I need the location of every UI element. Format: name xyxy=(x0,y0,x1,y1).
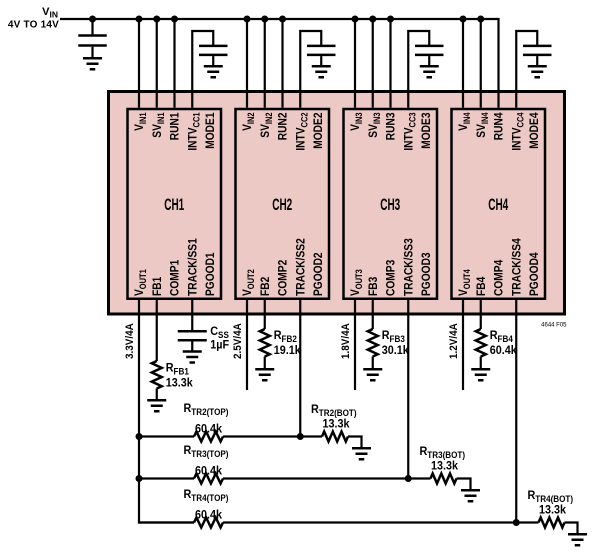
svg-text:1.8V/4A: 1.8V/4A xyxy=(341,323,353,359)
junction: VOUT1 / row TR2 xyxy=(136,433,143,440)
junction: CIN tap on VIN rail xyxy=(89,16,96,23)
wire: rail to RUN2 pin xyxy=(281,19,283,108)
svg-text:CH4: CH4 xyxy=(488,196,508,214)
svg-text:RUN1: RUN1 xyxy=(169,113,182,141)
channel block CH3 xyxy=(344,109,438,299)
svg-text:PGOOD3: PGOOD3 xyxy=(421,252,434,296)
ground: RFB1 xyxy=(147,400,166,411)
wire: CIN to ground xyxy=(91,47,93,58)
svg-text:3.3V/4A: 3.3V/4A xyxy=(125,323,137,359)
wire: RFB4 to ground xyxy=(480,357,482,369)
junction: VIN3 tap xyxy=(352,16,359,23)
svg-text:PGOOD4: PGOOD4 xyxy=(529,252,542,296)
wire: FB4 pin to RFB4 xyxy=(480,298,482,330)
wire: rail to VIN4 pin xyxy=(462,19,464,108)
svg-text:CH2: CH2 xyxy=(272,196,292,214)
wire: TRACK/SS4 down to row xyxy=(515,298,517,523)
resistor RTR2(TOP) 60.4k xyxy=(194,432,223,442)
wire: INTVCC4 pin to bypass cap C4 xyxy=(516,31,537,108)
svg-text:13.3k: 13.3k xyxy=(539,504,567,517)
resistor RFB4 60.4k xyxy=(476,329,486,357)
capacitor: INTVCC2 bypass xyxy=(307,46,336,55)
junction: VOUT1 / row TR3 xyxy=(136,475,143,482)
svg-text:13.3k: 13.3k xyxy=(166,377,194,390)
junction: SVIN4 tap xyxy=(477,16,484,23)
ground: INTVCC4 bypass cap xyxy=(528,66,547,77)
svg-text:60.4k: 60.4k xyxy=(195,465,223,478)
wire: FB2 pin to RFB2 xyxy=(264,298,266,330)
junction: TRACK/SS2 on row xyxy=(297,433,304,440)
junction: SVIN2 tap xyxy=(261,16,268,23)
junction: SVIN1 tap xyxy=(153,16,160,23)
wire: rail to SVIN2 pin xyxy=(264,19,266,108)
svg-text:30.1k: 30.1k xyxy=(382,345,410,358)
ground: RFB2 xyxy=(255,369,274,380)
svg-text:TRACK/SS4: TRACK/SS4 xyxy=(511,238,524,296)
svg-text:MODE2: MODE2 xyxy=(313,113,326,149)
svg-text:4V TO 14V: 4V TO 14V xyxy=(8,20,59,31)
wire: VOUT1 down to tracking row 3 xyxy=(139,298,194,523)
capacitor CIN xyxy=(78,36,107,46)
wire: RFB3 to ground xyxy=(372,357,374,369)
svg-text:FB1: FB1 xyxy=(151,277,164,296)
svg-text:2.5V/4A: 2.5V/4A xyxy=(233,323,245,359)
resistor RTR4(BOT) 13.3k xyxy=(539,518,565,528)
junction: VIN1 tap xyxy=(136,16,143,23)
wire: FB3 pin to RFB3 xyxy=(372,298,374,330)
wire: CSS to ground xyxy=(191,342,193,351)
svg-text:TRACK/SS3: TRACK/SS3 xyxy=(403,238,416,296)
wire: rail to RUN3 pin xyxy=(389,19,391,108)
ground: INTVCC3 bypass cap xyxy=(420,66,439,77)
wire: bypass cap C1 to ground xyxy=(212,56,214,65)
wire: rail to SVIN1 pin xyxy=(156,19,158,108)
wire: rail to SVIN3 pin xyxy=(372,19,374,108)
ground: RTR4(BOT) xyxy=(568,534,587,545)
svg-text:13.3k: 13.3k xyxy=(431,460,459,473)
junction: TRACK/SS3 on row xyxy=(405,475,412,482)
wire: rail to VIN2 pin xyxy=(246,19,248,108)
svg-text:13.3k: 13.3k xyxy=(322,418,350,431)
node VIN: input rail xyxy=(60,19,499,108)
svg-text:PGOOD2: PGOOD2 xyxy=(313,252,326,296)
wire: tracking row TR4 horizontal xyxy=(139,523,578,534)
resistor RTR3(BOT) 13.3k xyxy=(431,474,457,484)
resistor RFB2 19.1k xyxy=(260,329,270,357)
capacitor CSS 1uF xyxy=(178,331,207,340)
IC outer body LTC4644 xyxy=(109,92,565,315)
svg-text:4644 F05: 4644 F05 xyxy=(541,323,567,329)
channel block CH2 xyxy=(236,109,330,299)
svg-text:19.1k: 19.1k xyxy=(274,345,302,358)
wire: INTVCC3 pin to bypass cap C3 xyxy=(408,31,429,108)
channel block CH1 xyxy=(128,109,222,299)
junction: RUN2 tap xyxy=(279,16,286,23)
svg-text:TRACK/SS1: TRACK/SS1 xyxy=(187,238,200,296)
svg-text:FB4: FB4 xyxy=(475,276,488,296)
wire: rail to VIN1 pin xyxy=(138,19,140,108)
wire: rail to SVIN4 pin xyxy=(480,19,482,108)
svg-text:COMP2: COMP2 xyxy=(277,260,290,296)
capacitor: INTVCC4 bypass xyxy=(523,46,552,55)
ground: CSS xyxy=(183,352,202,363)
wire: tracking row TR3 horizontal xyxy=(139,479,471,490)
wire: INTVCC1 pin to bypass cap C1 xyxy=(192,31,213,108)
wire: bypass cap C3 to ground xyxy=(428,56,430,65)
svg-text:RUN3: RUN3 xyxy=(385,113,398,141)
wire: bypass cap C4 to ground xyxy=(536,56,538,65)
svg-text:RUN4: RUN4 xyxy=(493,112,506,140)
svg-text:COMP4: COMP4 xyxy=(493,259,506,296)
resistor RTR3(TOP) 60.4k xyxy=(194,474,223,484)
wire: TRACK/SS1 to CSS xyxy=(191,298,193,331)
wire: rail to VIN3 pin xyxy=(354,19,356,108)
svg-text:RUN2: RUN2 xyxy=(277,113,290,141)
svg-text:1.2V/4A: 1.2V/4A xyxy=(449,323,461,359)
ground: RTR3(BOT) xyxy=(461,490,480,501)
wire: FB1 pin to RFB1 xyxy=(156,298,158,362)
wire: VOUT4 output stub xyxy=(462,298,464,391)
ground: RTR2(BOT) xyxy=(352,448,371,459)
wire: TRACK/SS3 down to row xyxy=(407,298,409,479)
svg-text:FB2: FB2 xyxy=(259,277,272,296)
wire: INTVCC2 pin to bypass cap C2 xyxy=(300,31,321,108)
channel block CH4 xyxy=(452,109,546,299)
junction: VIN4 tap xyxy=(460,16,467,23)
svg-text:60.4k: 60.4k xyxy=(490,345,518,358)
resistor RFB3 30.1k xyxy=(368,329,378,357)
svg-text:COMP1: COMP1 xyxy=(169,260,182,296)
svg-text:60.4k: 60.4k xyxy=(195,509,223,522)
svg-text:FB3: FB3 xyxy=(367,277,380,296)
junction: RUN1 tap xyxy=(171,16,178,23)
svg-text:MODE3: MODE3 xyxy=(421,113,434,149)
wire: RFB2 to ground xyxy=(264,357,266,369)
svg-text:TRACK/SS2: TRACK/SS2 xyxy=(295,238,308,296)
junction: TRACK/SS4 on row xyxy=(513,519,520,526)
resistor RFB1 13.3k xyxy=(152,361,162,389)
wire: tracking row TR2 horizontal xyxy=(139,437,362,448)
svg-text:MODE1: MODE1 xyxy=(205,113,218,149)
svg-text:60.4k: 60.4k xyxy=(195,423,223,436)
capacitor: INTVCC3 bypass xyxy=(415,46,444,55)
svg-text:CH1: CH1 xyxy=(164,196,184,214)
wire: RFB1 to ground xyxy=(156,389,158,400)
svg-text:PGOOD1: PGOOD1 xyxy=(205,252,218,296)
ground: RFB3 xyxy=(363,369,382,380)
ground: INTVCC1 bypass cap xyxy=(204,66,223,77)
ground: RFB4 xyxy=(471,369,490,380)
junction: SVIN3 tap xyxy=(369,16,376,23)
wire: rail to RUN1 pin xyxy=(173,19,175,108)
wire: bypass cap C2 to ground xyxy=(320,56,322,65)
wire: VIN rail to CIN xyxy=(91,19,93,35)
wire: TRACK/SS2 down to row xyxy=(299,298,301,437)
svg-text:MODE4: MODE4 xyxy=(529,112,542,149)
resistor RTR2(BOT) 13.3k xyxy=(322,432,348,442)
ground: INTVCC2 bypass cap xyxy=(312,66,331,77)
svg-text:COMP3: COMP3 xyxy=(385,260,398,296)
junction: VIN2 tap xyxy=(244,16,251,23)
ground: CIN xyxy=(83,58,102,69)
wire: VOUT3 output stub xyxy=(354,298,356,391)
resistor RTR4(TOP) 60.4k xyxy=(194,518,223,528)
svg-text:1µF: 1µF xyxy=(210,339,229,352)
wire: VOUT2 output stub xyxy=(246,298,248,391)
svg-text:CH3: CH3 xyxy=(380,196,400,214)
capacitor: INTVCC1 bypass xyxy=(199,46,228,55)
junction: RUN3 tap xyxy=(387,16,394,23)
